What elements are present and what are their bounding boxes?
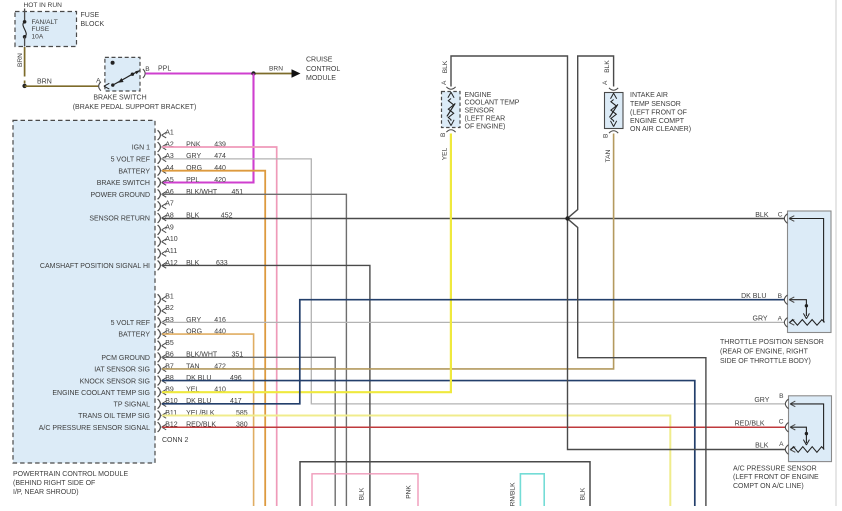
svg-text:FAN/ALT: FAN/ALT [32, 19, 58, 26]
wire BRN vertical below fuse block [24, 47, 26, 77]
svg-text:I/P, NEAR SHROUD): I/P, NEAR SHROUD) [13, 489, 79, 496]
svg-text:A7: A7 [165, 201, 174, 208]
cyan inner box (partial) [520, 474, 544, 506]
pin B11 [158, 410, 248, 421]
svg-text:A1: A1 [165, 130, 174, 137]
wire PPL from brake switch [146, 72, 252, 74]
pin A1 [158, 130, 174, 141]
svg-text:(LEFT REAR: (LEFT REAR [465, 116, 506, 123]
svg-text:GRN/BLK: GRN/BLK [510, 482, 517, 506]
svg-text:A/C PRESSURE SENSOR: A/C PRESSURE SENSOR [733, 465, 817, 472]
wire A4 ORG 440 [162, 171, 265, 506]
svg-text:ON AIR CLEANER): ON AIR CLEANER) [630, 126, 691, 133]
svg-text:SENSOR: SENSOR [465, 108, 495, 115]
ECT pin A arc [446, 87, 455, 89]
svg-text:TEMP SENSOR: TEMP SENSOR [630, 101, 681, 108]
svg-text:A: A [779, 441, 784, 448]
svg-text:PNK: PNK [406, 485, 413, 499]
svg-text:BRAKE SWITCH: BRAKE SWITCH [97, 180, 150, 187]
svg-text:(LEFT FRONT OF: (LEFT FRONT OF [630, 110, 687, 117]
IAT pin B arc [609, 131, 618, 133]
svg-text:BLK: BLK [755, 212, 769, 219]
svg-text:A9: A9 [165, 224, 174, 231]
pin B12 [158, 421, 248, 432]
wire B12 RED/BLK 380 to AC pressure sensor pin C [162, 426, 785, 428]
svg-text:(LEFT FRONT OF ENGINE: (LEFT FRONT OF ENGINE [733, 474, 819, 481]
wire B3 GRY 416 to TPS pin A [162, 321, 785, 323]
wire B10 DK BLU 417 to TPS pin B [162, 300, 785, 404]
svg-text:SIDE OF THROTTLE BODY): SIDE OF THROTTLE BODY) [720, 358, 811, 365]
svg-text:POWER GROUND: POWER GROUND [91, 192, 151, 199]
pin B10 [158, 398, 242, 409]
AC pressure sensor box [789, 396, 832, 462]
wire A8 BLK 452 sensor return to TPS pin C [162, 218, 785, 220]
pin A3 [158, 153, 226, 164]
pin A5 [158, 177, 226, 188]
svg-text:BLK: BLK [442, 60, 449, 73]
svg-text:A11: A11 [165, 248, 177, 255]
arrow to cruise control module [292, 69, 301, 77]
svg-text:BLK: BLK [580, 487, 587, 500]
svg-text:C: C [778, 212, 783, 219]
page border line [835, 0, 837, 506]
svg-text:B: B [440, 132, 447, 137]
junction node sensor return [565, 216, 569, 220]
svg-text:B: B [779, 393, 784, 400]
distributor box (partial) [300, 462, 590, 506]
intake air temp sensor box [605, 93, 624, 129]
svg-text:BLK: BLK [755, 443, 769, 450]
svg-text:PCM GROUND: PCM GROUND [101, 355, 150, 362]
svg-text:B: B [145, 66, 150, 73]
ECT pin B arc [446, 130, 455, 132]
svg-text:CRUISE: CRUISE [306, 57, 333, 64]
svg-text:KNOCK SENSOR SIG: KNOCK SENSOR SIG [80, 378, 150, 385]
svg-text:TP SIGNAL: TP SIGNAL [114, 402, 151, 409]
engine coolant temp sensor box [442, 92, 461, 128]
svg-text:B1: B1 [165, 294, 174, 301]
brake switch terminal A arc [99, 82, 101, 91]
svg-text:SENSOR RETURN: SENSOR RETURN [89, 216, 150, 223]
wire A12 BLK 633 [162, 265, 370, 506]
wire BLK from IAT sensor pin A to junction then down to right [569, 56, 614, 217]
wire B6 BLK/WHT 351 [162, 357, 335, 506]
brake switch box [105, 57, 140, 91]
svg-text:B5: B5 [165, 340, 174, 347]
svg-text:CONN 2: CONN 2 [162, 437, 189, 444]
pin A10 [158, 236, 178, 247]
wire B11 YEL/BLK 585 [162, 415, 670, 506]
svg-text:CONTROL: CONTROL [306, 66, 340, 73]
TPS pin A [778, 316, 795, 328]
wire A3 GRY 474 to AC pressure sensor pin B [162, 159, 785, 404]
wire fuse to box bottom [24, 37, 26, 47]
svg-text:A/C PRESSURE SENSOR SIGNAL: A/C PRESSURE SENSOR SIGNAL [39, 425, 150, 432]
svg-text:PPL: PPL [186, 177, 199, 184]
svg-text:(BRAKE PEDAL SUPPORT BRACKET): (BRAKE PEDAL SUPPORT BRACKET) [73, 104, 197, 111]
svg-text:BATTERY: BATTERY [118, 332, 150, 339]
svg-text:CAMSHAFT POSITION SIGNAL HI: CAMSHAFT POSITION SIGNAL HI [40, 263, 150, 270]
IAT pin A arc [609, 88, 618, 90]
pink inner box (partial) [312, 474, 418, 506]
TPS pin B [778, 293, 795, 305]
wire B8 DK BLU 496 knock sensor [162, 381, 695, 506]
svg-text:ENGINE COMPT: ENGINE COMPT [630, 118, 685, 125]
svg-text:(REAR OF ENGINE, RIGHT: (REAR OF ENGINE, RIGHT [720, 349, 809, 356]
wire BRN to cruise control module [256, 73, 292, 75]
IAT thermistor [611, 93, 617, 99]
svg-text:TAN: TAN [605, 149, 612, 162]
pin A7 [158, 201, 174, 212]
fuse F1 [23, 20, 27, 24]
brake switch terminal B arc [143, 69, 145, 78]
svg-text:C: C [779, 419, 784, 426]
svg-text:BRN: BRN [17, 53, 24, 67]
svg-text:COOLANT TEMP: COOLANT TEMP [465, 100, 520, 107]
TPS internal potentiometer [790, 219, 824, 323]
pin A2 [158, 141, 226, 152]
wire A6 BLK/WHT 451 [162, 194, 346, 506]
pin A9 [158, 224, 174, 235]
svg-text:GRY: GRY [754, 397, 769, 404]
svg-text:A5: A5 [165, 177, 174, 184]
svg-text:BRN: BRN [37, 78, 52, 85]
svg-text:BLOCK: BLOCK [81, 21, 105, 28]
svg-text:THROTTLE POSITION SENSOR: THROTTLE POSITION SENSOR [720, 339, 824, 346]
svg-text:YEL: YEL [441, 147, 448, 160]
svg-text:BLK: BLK [359, 487, 366, 500]
svg-text:10A: 10A [32, 33, 44, 40]
TPS pin C [778, 212, 795, 224]
svg-text:FUSE: FUSE [81, 12, 100, 19]
brake switch contacts and arm [111, 83, 114, 86]
pin B7 [158, 363, 226, 374]
pin B2 [158, 305, 174, 316]
svg-text:INTAKE AIR: INTAKE AIR [630, 92, 668, 99]
svg-text:B2: B2 [165, 305, 174, 312]
svg-text:A: A [96, 77, 101, 84]
svg-text:ENGINE: ENGINE [465, 92, 492, 99]
svg-text:5 VOLT REF: 5 VOLT REF [111, 320, 150, 327]
pin B9 [158, 387, 226, 398]
svg-text:420: 420 [214, 177, 226, 184]
AC pin B [779, 393, 795, 409]
svg-text:5 VOLT REF: 5 VOLT REF [111, 157, 150, 164]
wire B9 YEL 410 to ECT sensor pin B [162, 134, 451, 393]
AC pin C [779, 419, 796, 433]
wire A2 PNK 439 [162, 147, 277, 506]
svg-text:IGN 1: IGN 1 [132, 145, 150, 152]
wire BLK from ECT sensor pin A to sensor return junction and AC sensor pin A [451, 56, 785, 450]
svg-text:RED/BLK: RED/BLK [735, 420, 765, 427]
svg-text:ENGINE COOLANT TEMP SIG: ENGINE COOLANT TEMP SIG [52, 390, 150, 397]
wire B4 ORG 440 [162, 334, 254, 506]
ECT thermistor [448, 92, 454, 98]
svg-text:DK BLU: DK BLU [741, 293, 766, 300]
svg-text:IAT SENSOR SIG: IAT SENSOR SIG [94, 367, 150, 374]
svg-text:PPL: PPL [158, 65, 171, 72]
svg-text:BRAKE SWITCH: BRAKE SWITCH [93, 94, 146, 101]
pin B5 [158, 340, 174, 351]
AC pin A [779, 441, 795, 455]
powertrain control module box [13, 120, 155, 463]
svg-text:BATTERY: BATTERY [118, 168, 150, 175]
throttle position sensor box [788, 211, 832, 333]
svg-text:COMPT ON A/C LINE): COMPT ON A/C LINE) [733, 483, 804, 490]
svg-text:MODULE: MODULE [306, 75, 336, 82]
AC internal potentiometer [791, 404, 824, 450]
wire hot feed into fuse [24, 9, 26, 21]
svg-text:TRANS OIL TEMP SIG: TRANS OIL TEMP SIG [78, 413, 150, 420]
node splice at BRN corner [22, 84, 26, 88]
wire PPL vertical to PCM pin A5 [162, 74, 254, 183]
svg-text:A10: A10 [165, 236, 178, 243]
svg-text:A: A [441, 80, 448, 85]
pin A8 [158, 212, 233, 223]
junction node PPL/BRN [251, 71, 255, 75]
pin B4 [158, 328, 226, 339]
svg-text:(BEHIND RIGHT SIDE OF: (BEHIND RIGHT SIDE OF [13, 480, 95, 487]
pin B6 [158, 352, 244, 363]
pin A4 [158, 165, 226, 176]
pin A6 [158, 189, 244, 200]
svg-text:B: B [778, 293, 783, 300]
svg-text:HOT IN RUN: HOT IN RUN [24, 2, 63, 9]
pin B8 [158, 375, 242, 386]
svg-text:GRY: GRY [753, 316, 768, 323]
fuse block [15, 12, 77, 47]
svg-text:BLK: BLK [604, 60, 611, 73]
wire BRN horizontal to brake switch [25, 85, 99, 87]
pin B1 [158, 294, 174, 305]
svg-text:POWERTRAIN CONTROL MODULE: POWERTRAIN CONTROL MODULE [13, 471, 128, 478]
pin A12 [158, 260, 228, 271]
svg-text:B: B [602, 133, 609, 138]
pin A11 [158, 248, 178, 258]
wire B7 TAN 472 to IAT sensor pin B [162, 134, 614, 369]
svg-text:A: A [778, 316, 783, 323]
svg-text:BRN: BRN [269, 66, 283, 73]
svg-text:FUSE: FUSE [32, 26, 50, 33]
pin B3 [158, 317, 226, 328]
svg-text:A: A [602, 80, 609, 85]
svg-text:OF ENGINE): OF ENGINE) [465, 123, 506, 130]
